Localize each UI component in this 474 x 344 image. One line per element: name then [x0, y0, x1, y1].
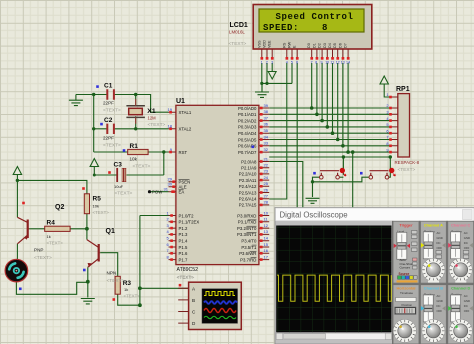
svg-text:Channel C: Channel C: [451, 222, 470, 227]
svg-text:<TEXT>: <TEXT>: [34, 255, 52, 261]
svg-text:1k: 1k: [124, 287, 128, 292]
svg-text:Timebase: Timebase: [400, 291, 413, 295]
svg-text:22PF: 22PF: [103, 101, 114, 106]
svg-text:RP1: RP1: [396, 86, 410, 93]
svg-text:17: 17: [264, 254, 269, 259]
svg-text:P1.7: P1.7: [179, 257, 188, 262]
svg-text:<TEXT>: <TEXT>: [93, 210, 110, 215]
svg-text:37: 37: [264, 115, 269, 120]
svg-text:38: 38: [264, 109, 269, 114]
svg-text:34: 34: [264, 134, 269, 139]
svg-text:1: 1: [261, 61, 263, 65]
svg-text:LM016L: LM016L: [229, 30, 245, 35]
svg-text:GND: GND: [464, 236, 470, 240]
svg-text:1k: 1k: [47, 234, 51, 239]
svg-text:P2.2/A10: P2.2/A10: [239, 172, 257, 177]
svg-text:GND: GND: [464, 299, 470, 303]
svg-text:33: 33: [264, 141, 269, 146]
svg-text:Q1: Q1: [106, 228, 115, 235]
svg-text:PNP: PNP: [34, 248, 43, 253]
svg-text:8: 8: [315, 61, 317, 65]
svg-text:P0.0/AD0: P0.0/AD0: [238, 106, 257, 111]
svg-text:P0.4/AD4: P0.4/AD4: [238, 131, 257, 136]
svg-text:P1.4: P1.4: [179, 239, 188, 244]
svg-text:Source: Source: [399, 272, 410, 276]
svg-text:P0.6/AD6: P0.6/AD6: [238, 144, 257, 149]
svg-text:P0.2/AD2: P0.2/AD2: [238, 118, 257, 123]
svg-text:P2.3/A11: P2.3/A11: [239, 178, 257, 183]
svg-text:P3.5/T1: P3.5/T1: [241, 245, 257, 250]
svg-text:P1.5: P1.5: [179, 245, 188, 250]
svg-text:Digital Oscilloscope: Digital Oscilloscope: [280, 210, 348, 219]
svg-text:6: 6: [296, 61, 298, 65]
svg-text:P2.4/A12: P2.4/A12: [239, 184, 257, 189]
svg-text:<TEXT>: <TEXT>: [229, 41, 247, 47]
svg-text:<TEXT>: <TEXT>: [103, 143, 121, 149]
svg-text:39: 39: [264, 103, 269, 108]
svg-text:30: 30: [168, 182, 173, 187]
svg-text:NPN: NPN: [107, 271, 117, 276]
svg-text:P0.1/AD1: P0.1/AD1: [238, 112, 257, 117]
svg-text:VDD: VDD: [263, 40, 267, 48]
svg-text:GND: GND: [437, 299, 443, 303]
svg-text:B: B: [192, 298, 195, 303]
svg-text:DC: DC: [437, 304, 441, 308]
svg-text:7: 7: [311, 61, 313, 65]
svg-text:31: 31: [164, 187, 169, 192]
svg-text:<TEXT>: <TEXT>: [107, 278, 125, 284]
svg-text:POW: POW: [152, 190, 163, 195]
svg-text:P2.0/A8: P2.0/A8: [241, 159, 257, 164]
svg-text:P3.4/T0: P3.4/T0: [241, 239, 257, 244]
svg-text:16: 16: [264, 248, 269, 253]
svg-text:P3.3/INT1: P3.3/INT1: [237, 232, 257, 237]
svg-text:R5: R5: [93, 196, 102, 203]
svg-text:3: 3: [271, 61, 273, 65]
svg-text:D4: D4: [328, 43, 332, 48]
svg-text:D7: D7: [344, 43, 348, 48]
svg-text:GND: GND: [437, 236, 443, 240]
svg-text:11: 11: [330, 61, 334, 65]
svg-text:D0: D0: [307, 43, 311, 48]
svg-text:D5: D5: [333, 43, 337, 48]
svg-text:28: 28: [264, 200, 269, 205]
svg-text:14: 14: [264, 236, 269, 241]
svg-text:DC: DC: [464, 304, 468, 308]
svg-text:P0.3/AD3: P0.3/AD3: [238, 125, 257, 130]
svg-text:C3: C3: [114, 162, 123, 169]
svg-text:10k: 10k: [93, 204, 99, 209]
svg-text:10: 10: [264, 210, 269, 215]
svg-text:<TEXT>: <TEXT>: [115, 191, 133, 197]
svg-text:Position: Position: [402, 303, 413, 307]
svg-text:13: 13: [264, 229, 269, 234]
svg-text:P2.1/A9: P2.1/A9: [241, 166, 257, 171]
svg-text:<TEXT>: <TEXT>: [398, 167, 416, 173]
svg-text:D3: D3: [323, 43, 327, 48]
svg-text:P0.5/AD5: P0.5/AD5: [238, 137, 257, 142]
svg-text:AC: AC: [464, 294, 468, 298]
svg-text:X1: X1: [147, 108, 156, 115]
svg-text:12M: 12M: [148, 115, 157, 120]
svg-text:AC: AC: [437, 231, 441, 235]
svg-text:OFF: OFF: [464, 246, 470, 250]
svg-text:21: 21: [264, 156, 269, 161]
svg-text:10: 10: [325, 61, 329, 65]
svg-text:35: 35: [264, 128, 269, 133]
svg-text:12: 12: [336, 61, 340, 65]
svg-text:SPEED:: SPEED:: [263, 23, 299, 33]
svg-text:P1.2: P1.2: [179, 226, 188, 231]
svg-text:P2.5/A13: P2.5/A13: [239, 190, 257, 195]
svg-text:26: 26: [264, 187, 269, 192]
svg-text:R4: R4: [47, 220, 56, 227]
svg-text:VEE: VEE: [268, 40, 272, 48]
svg-text:<TEXT>: <TEXT>: [133, 163, 151, 169]
svg-text:<TEXT>: <TEXT>: [148, 122, 166, 128]
svg-text:36: 36: [264, 122, 269, 127]
svg-text:D2: D2: [318, 43, 322, 48]
svg-text:Trigger: Trigger: [399, 222, 413, 227]
svg-text:Channel B: Channel B: [424, 286, 443, 291]
svg-text:<TEXT>: <TEXT>: [103, 108, 121, 114]
svg-text:RESPACK-8: RESPACK-8: [395, 160, 420, 165]
svg-text:Q2: Q2: [55, 204, 64, 211]
svg-text:C2: C2: [104, 117, 113, 124]
svg-text:DC: DC: [464, 241, 468, 245]
svg-text:EA: EA: [179, 190, 185, 195]
svg-text:10uF: 10uF: [114, 184, 124, 189]
svg-text:P3.1/TXD: P3.1/TXD: [238, 220, 257, 225]
svg-text:U1: U1: [176, 98, 185, 105]
svg-text:P3.0/RXD: P3.0/RXD: [237, 213, 256, 218]
svg-text:D1: D1: [312, 43, 316, 48]
svg-text:22: 22: [264, 163, 269, 168]
svg-text:Horizontal: Horizontal: [396, 286, 415, 291]
svg-text:VSS: VSS: [257, 40, 261, 48]
svg-text:C1: C1: [104, 83, 113, 90]
svg-text:LCD1: LCD1: [230, 22, 248, 29]
svg-text:14: 14: [346, 61, 350, 65]
svg-text:Cursors: Cursors: [400, 266, 411, 270]
svg-text:OFF: OFF: [437, 246, 443, 250]
svg-text:10k: 10k: [130, 156, 138, 161]
svg-text:XTAL1: XTAL1: [179, 110, 192, 115]
svg-text:P2.7/A15: P2.7/A15: [239, 203, 257, 208]
svg-text:R1: R1: [130, 143, 139, 150]
svg-text:<TEXT>: <TEXT>: [47, 241, 64, 246]
svg-text:22PF: 22PF: [103, 136, 114, 141]
svg-text:25: 25: [264, 181, 269, 186]
svg-text:9: 9: [321, 61, 323, 65]
svg-text:XTAL2: XTAL2: [179, 127, 192, 132]
svg-text:D6: D6: [338, 43, 342, 48]
svg-text:DC: DC: [437, 241, 441, 245]
svg-text:P2.6/A14: P2.6/A14: [239, 197, 257, 202]
svg-text:RW: RW: [288, 41, 292, 48]
svg-text:24: 24: [264, 175, 269, 180]
svg-text:OFF: OFF: [464, 309, 470, 313]
svg-text:<TEXT>: <TEXT>: [177, 275, 194, 280]
svg-text:P0.7/AD7: P0.7/AD7: [238, 150, 257, 155]
svg-text:12: 12: [264, 223, 269, 228]
svg-text:P1.6: P1.6: [179, 251, 188, 256]
svg-text:OFF: OFF: [437, 309, 443, 313]
svg-text:8: 8: [322, 23, 327, 33]
svg-text:RS: RS: [282, 42, 286, 48]
svg-text:5: 5: [291, 61, 293, 65]
svg-text:P1.1/T2EX: P1.1/T2EX: [179, 220, 200, 225]
svg-text:Speed Control: Speed Control: [276, 12, 354, 22]
svg-text:AC: AC: [437, 294, 441, 298]
svg-text:P3.6/WR: P3.6/WR: [239, 251, 256, 256]
svg-text:AC: AC: [464, 231, 468, 235]
svg-text:15: 15: [264, 242, 269, 247]
svg-text:Channel D: Channel D: [451, 286, 470, 291]
svg-text:32: 32: [264, 147, 269, 152]
svg-text:P3.7/RD: P3.7/RD: [240, 257, 256, 262]
svg-text:Channel A: Channel A: [424, 222, 443, 227]
svg-text:AT89C52: AT89C52: [177, 267, 199, 273]
svg-text:P1.0/T2: P1.0/T2: [179, 213, 195, 218]
svg-text:13: 13: [341, 61, 345, 65]
svg-text:<TEXT>: <TEXT>: [124, 293, 141, 298]
svg-text:2: 2: [266, 61, 268, 65]
svg-text:4: 4: [286, 61, 288, 65]
svg-text:RST: RST: [179, 150, 188, 155]
svg-text:P3.2/INT0: P3.2/INT0: [237, 226, 257, 231]
svg-text:23: 23: [264, 169, 269, 174]
svg-text:P1.3: P1.3: [179, 232, 188, 237]
svg-text:27: 27: [264, 194, 269, 199]
